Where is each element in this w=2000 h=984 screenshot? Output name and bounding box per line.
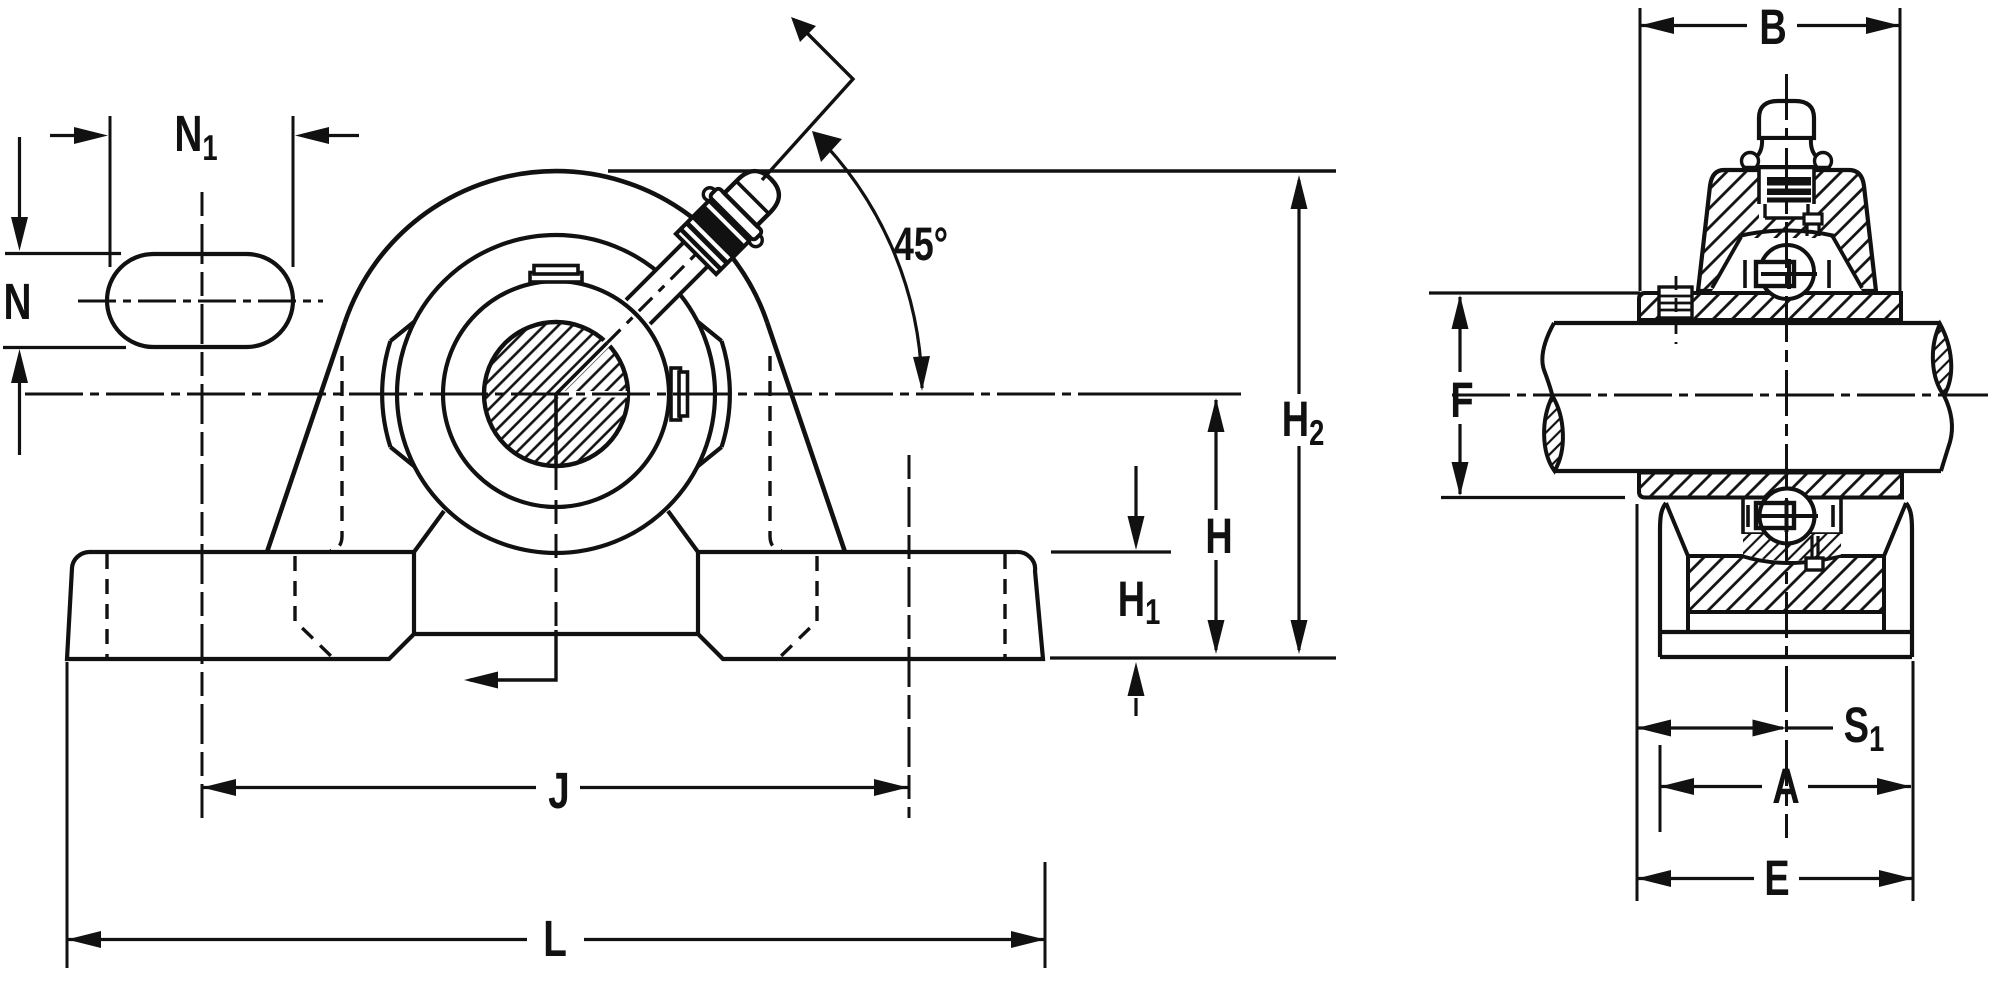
J dimension line: [202, 786, 908, 789]
relub channel bottom: [1812, 536, 1818, 558]
channel side lines: [1759, 168, 1814, 204]
label H2: [1284, 402, 1306, 436]
DIMS-LEFT: [3, 116, 1336, 968]
left leg outer edge: [267, 323, 345, 553]
shaft body: [1553, 320, 1949, 471]
hidden boss face edge x770: [770, 356, 782, 551]
label N1: [177, 116, 200, 151]
bore hatch seam along centerline: [556, 391, 627, 398]
H1 upper arrow line: [1134, 466, 1137, 516]
side view of bearing on shaft: [1429, 8, 1988, 901]
collar set screw: [1659, 287, 1692, 318]
F top reference line: [1429, 291, 1640, 294]
boss arc right r177: [722, 341, 730, 447]
base recess left wall: [412, 552, 416, 634]
top reference line H2: [608, 169, 1336, 172]
arc arrowhead bottom: [913, 356, 930, 391]
housing body side outline right: [1906, 503, 1912, 657]
bore vertical radius line: [554, 394, 558, 466]
B dimension line: [1640, 24, 1900, 27]
bell slant line left: [1712, 237, 1741, 288]
fitting side bump upper: [701, 185, 719, 203]
boss chamfer lower-left: [390, 447, 414, 467]
relub rect bottom: [1806, 558, 1823, 570]
base slab lines: [1660, 632, 1912, 657]
thread channel lower: [1765, 204, 1808, 218]
label H: [1208, 519, 1230, 553]
inner leg edge right: [668, 511, 698, 552]
upper cage rect: [1756, 262, 1794, 286]
hidden slot edge x817 with chamfer: [779, 556, 817, 658]
45deg dimension arc: [814, 133, 922, 388]
label N: [6, 284, 29, 319]
label A: [1773, 769, 1798, 803]
H1 lower arrow line: [1134, 698, 1137, 716]
N1 extension line right: [292, 116, 295, 267]
bolt slot oval: [107, 254, 293, 347]
S1 A E extension line right: [1912, 661, 1915, 901]
upper cage cross: [1761, 259, 1817, 289]
set screw boss right tier2: [679, 372, 688, 416]
label S1: [1845, 707, 1868, 742]
S1 A E extension line left: [1636, 504, 1639, 901]
bell white lower region: [1712, 238, 1862, 291]
label F: [1453, 383, 1472, 417]
lower ball outline restroke: [1760, 489, 1815, 544]
N top reference line: [5, 252, 121, 255]
lower cage rect: [1756, 503, 1794, 528]
shaft break left lower lens hatched: [1544, 396, 1563, 471]
N1 extension line left: [109, 116, 112, 267]
N upper arrow line: [18, 137, 21, 218]
label H1: [1120, 582, 1142, 616]
arrowheads right view: [1452, 17, 1914, 887]
F dimension line: [1458, 297, 1461, 494]
N1 arrow left: [50, 134, 78, 137]
bell white channel: [1759, 168, 1814, 218]
body chamfer left: [1666, 503, 1688, 556]
L extension right: [1044, 862, 1047, 968]
upper raceway side lines: [1745, 260, 1829, 288]
H dimension line: [1214, 400, 1217, 650]
fitting cap side view: [1759, 101, 1814, 138]
housing block hatched: [1688, 556, 1884, 612]
L extension left: [66, 662, 69, 968]
grease fitting axis dashed: [607, 253, 697, 343]
lower hatched band around ball: [1743, 534, 1841, 561]
main horizontal centerline: [25, 393, 1135, 396]
neck bump left: [1742, 153, 1759, 170]
S1 dimension line: [1637, 726, 1833, 729]
arc arrowhead top: [812, 131, 842, 162]
label L: [546, 921, 566, 956]
leader arrowhead: [791, 17, 816, 42]
body chamfer right: [1884, 503, 1906, 556]
shaft centerline: [1452, 394, 1988, 397]
collar band top hatched: [1639, 293, 1901, 320]
lower step lines: [1743, 532, 1841, 536]
right leg outer edge: [767, 323, 845, 553]
45deg leader line with arrow: [762, 25, 853, 180]
set screw boss top tier1: [530, 273, 582, 283]
fitting cap junction line: [737, 182, 768, 213]
datum arrowhead: [464, 672, 498, 689]
bell slant line right: [1833, 237, 1862, 288]
vertical centerline below bore with datum arrow: [555, 466, 558, 630]
base bottom extension line: [1050, 656, 1336, 659]
bore hatch seam along 45 line: [556, 341, 609, 394]
lower cage cross: [1760, 500, 1818, 532]
relub rect top: [1804, 214, 1822, 224]
A extension line left: [1659, 745, 1662, 832]
oval horizontal centerline: [78, 300, 323, 303]
fitting thread bands vertical: [1767, 177, 1811, 203]
fitting thread block: [676, 198, 752, 274]
label B: [1762, 10, 1785, 44]
N bottom reference line: [3, 346, 126, 349]
label J: [549, 773, 567, 809]
set screw boss top tier2: [534, 266, 578, 275]
shaft bore hatched: [484, 322, 628, 466]
B extension line right: [1899, 8, 1902, 291]
A dimension line: [1660, 785, 1911, 788]
hidden slot edge x295 with chamfer: [295, 556, 333, 658]
N lower arrow line: [18, 382, 21, 455]
F bottom reference line: [1441, 496, 1625, 499]
shaft break left upper curve: [1542, 323, 1554, 396]
fitting ball cap: [724, 163, 787, 226]
fitting thread bands: [679, 200, 750, 271]
block side lines to base: [1688, 612, 1884, 632]
shaft top edge: [1554, 321, 1940, 325]
bearing insert circle r113: [443, 281, 669, 507]
N1 arrow right: [325, 134, 359, 137]
hidden boss face edge x342: [330, 356, 342, 551]
grease fitting bell hatched: [1698, 170, 1876, 291]
set screw boss right tier1: [671, 368, 681, 420]
bore 45 radius line: [556, 343, 607, 394]
hidden slot edge left x107: [105, 554, 108, 658]
base recess right wall: [696, 552, 700, 634]
hidden slot edge right x1005: [1003, 554, 1006, 658]
label 45: [895, 227, 947, 260]
fitting collar: [709, 187, 763, 241]
lower raceway side lines outer: [1743, 498, 1841, 534]
grease fitting assembly at 45deg: [610, 151, 798, 339]
base outline: [67, 552, 1043, 659]
centerline extension for H: [1135, 393, 1241, 396]
boss chamfer upper-right: [698, 322, 722, 342]
neck bump right: [1815, 153, 1832, 170]
arrowheads left view dims: [11, 127, 1308, 948]
H2 dimension line: [1297, 180, 1300, 650]
housing body side outline left: [1660, 503, 1666, 657]
neck base line: [1742, 166, 1831, 170]
bolt centerline right: [908, 455, 911, 818]
label E: [1767, 861, 1788, 895]
boss chamfer lower-right: [698, 447, 722, 467]
shaft bottom edge: [1554, 469, 1941, 473]
E dimension line: [1637, 877, 1913, 880]
upper ball: [1760, 245, 1814, 299]
set screw centerline: [1675, 276, 1678, 344]
housing dome arc: [345, 171, 767, 322]
vertical centerline right view: [1785, 74, 1788, 838]
boss arc left r177: [382, 341, 390, 447]
relub channel top: [1807, 222, 1819, 236]
shaft break right upper lens hatched: [1933, 324, 1951, 396]
boss chamfer upper-left: [390, 322, 414, 342]
base top extension line: [1051, 550, 1171, 553]
outer ring top arc: [1739, 231, 1835, 237]
lower raceway side lines inner: [1748, 505, 1833, 527]
fitting stem: [626, 241, 709, 324]
bolt centerline left: [201, 192, 204, 818]
B extension line left: [1639, 8, 1642, 291]
fitting neck side view: [1749, 138, 1824, 167]
L dimension line: [67, 938, 1045, 941]
lower ball: [1760, 489, 1815, 544]
fitting side bump lower: [747, 231, 765, 249]
collar band bottom hatched: [1639, 473, 1902, 498]
inner leg edge left: [414, 511, 444, 552]
shaft break right lower curve: [1941, 396, 1952, 472]
housing bore circle r159: [397, 235, 715, 553]
